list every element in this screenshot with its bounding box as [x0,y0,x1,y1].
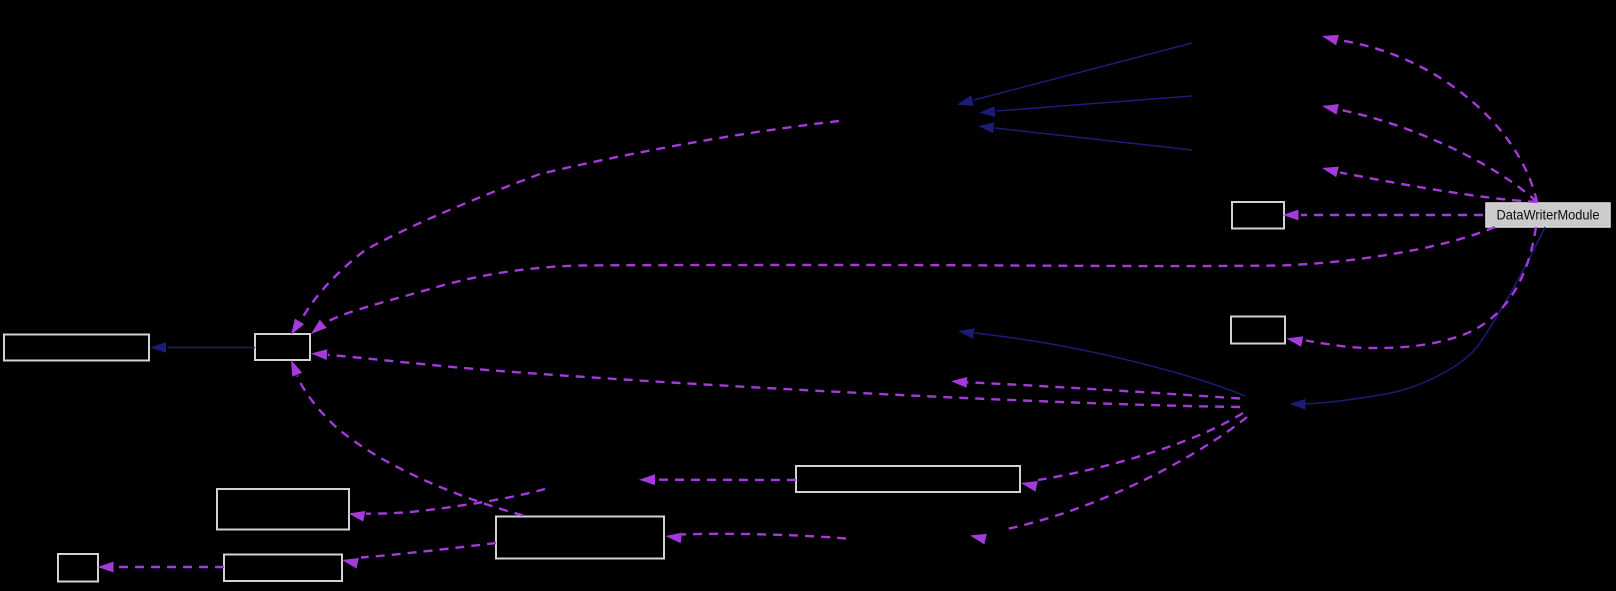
edge dashed hidden hub2 to wide box [1021,413,1243,492]
edge dashed big box B to hub box (upward) [291,360,523,516]
edge dashed hidden node N5 to big box B [666,533,847,544]
edge dashed hidden node N1 to box A [349,489,546,522]
edge dashed long line hidden hub2 to hub box [311,349,1240,407]
edge dashed big box B to box C [342,543,496,569]
node bottom big box B [496,517,664,559]
node bottom box C [224,555,342,582]
node small box top-right (box1) [1232,202,1284,229]
edge dashed long curve DataWriterModule to hub box [311,227,1495,334]
edge solid curve hidden hub2 to hidden node N3 [958,328,1245,396]
edge dashed curve T3 DataWriterModule to lower hidden node [1322,167,1537,202]
edge solid curve DataWriterModule to hidden hub2 [1290,227,1546,410]
node bottom box A [217,489,349,530]
edge dashed curve T1 DataWriterModule to top hidden node [1322,35,1537,202]
edge dashed big arc hidden node N2 to hub box [291,121,839,335]
edge dashed curve DataWriterModule to box2 [1287,227,1537,348]
node hub class box [255,334,310,360]
edge solid line 1 from hidden right node to hidden node N2 [957,43,1192,106]
edge solid line 3 from hidden right node to hidden node N2 [978,122,1192,150]
svg-text:DataWriterModule: DataWriterModule [1497,208,1600,223]
edge dashed DataWriterModule to box1 [1283,210,1484,221]
node left base class box [4,335,149,361]
node small box mid-right (box2) [1231,317,1285,344]
node DataWriterModule [1486,203,1610,227]
edge dashed wide box to hidden node N1 [639,474,796,485]
edge solid inheritance hub to left box [150,342,255,353]
edge solid line 2 from hidden right node to hidden node N2 [979,96,1192,117]
node bottom tiny box D [58,554,98,582]
edge dashed box C to box D [98,562,225,573]
edge dashed curve T2 DataWriterModule to mid hidden node [1322,104,1537,202]
node wide box (timers) [796,466,1020,492]
edge dashed hidden hub2 to hidden node N4 [951,377,1240,399]
edge dashed hidden hub2 to hidden node N5 [970,417,1247,544]
